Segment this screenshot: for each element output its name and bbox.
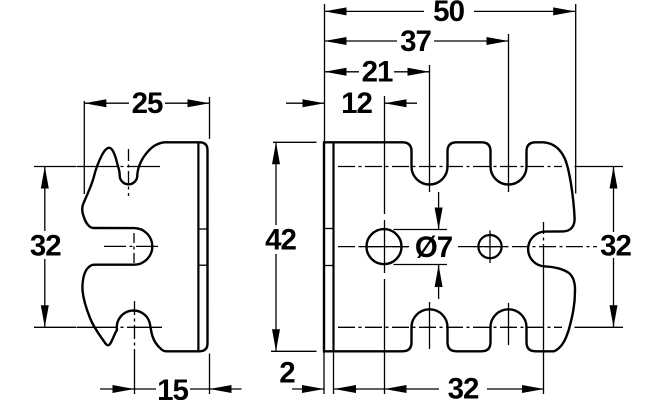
svg-text:37: 37 (400, 25, 431, 58)
svg-text:12: 12 (341, 87, 372, 120)
svg-text:15: 15 (157, 374, 188, 400)
svg-text:Ø7: Ø7 (415, 231, 453, 264)
svg-text:32: 32 (448, 372, 479, 400)
svg-text:2: 2 (279, 356, 295, 389)
svg-text:21: 21 (362, 56, 393, 89)
svg-text:32: 32 (600, 229, 631, 262)
svg-text:50: 50 (433, 0, 464, 28)
svg-text:25: 25 (132, 87, 163, 120)
svg-text:42: 42 (265, 223, 296, 256)
svg-text:32: 32 (30, 229, 61, 262)
